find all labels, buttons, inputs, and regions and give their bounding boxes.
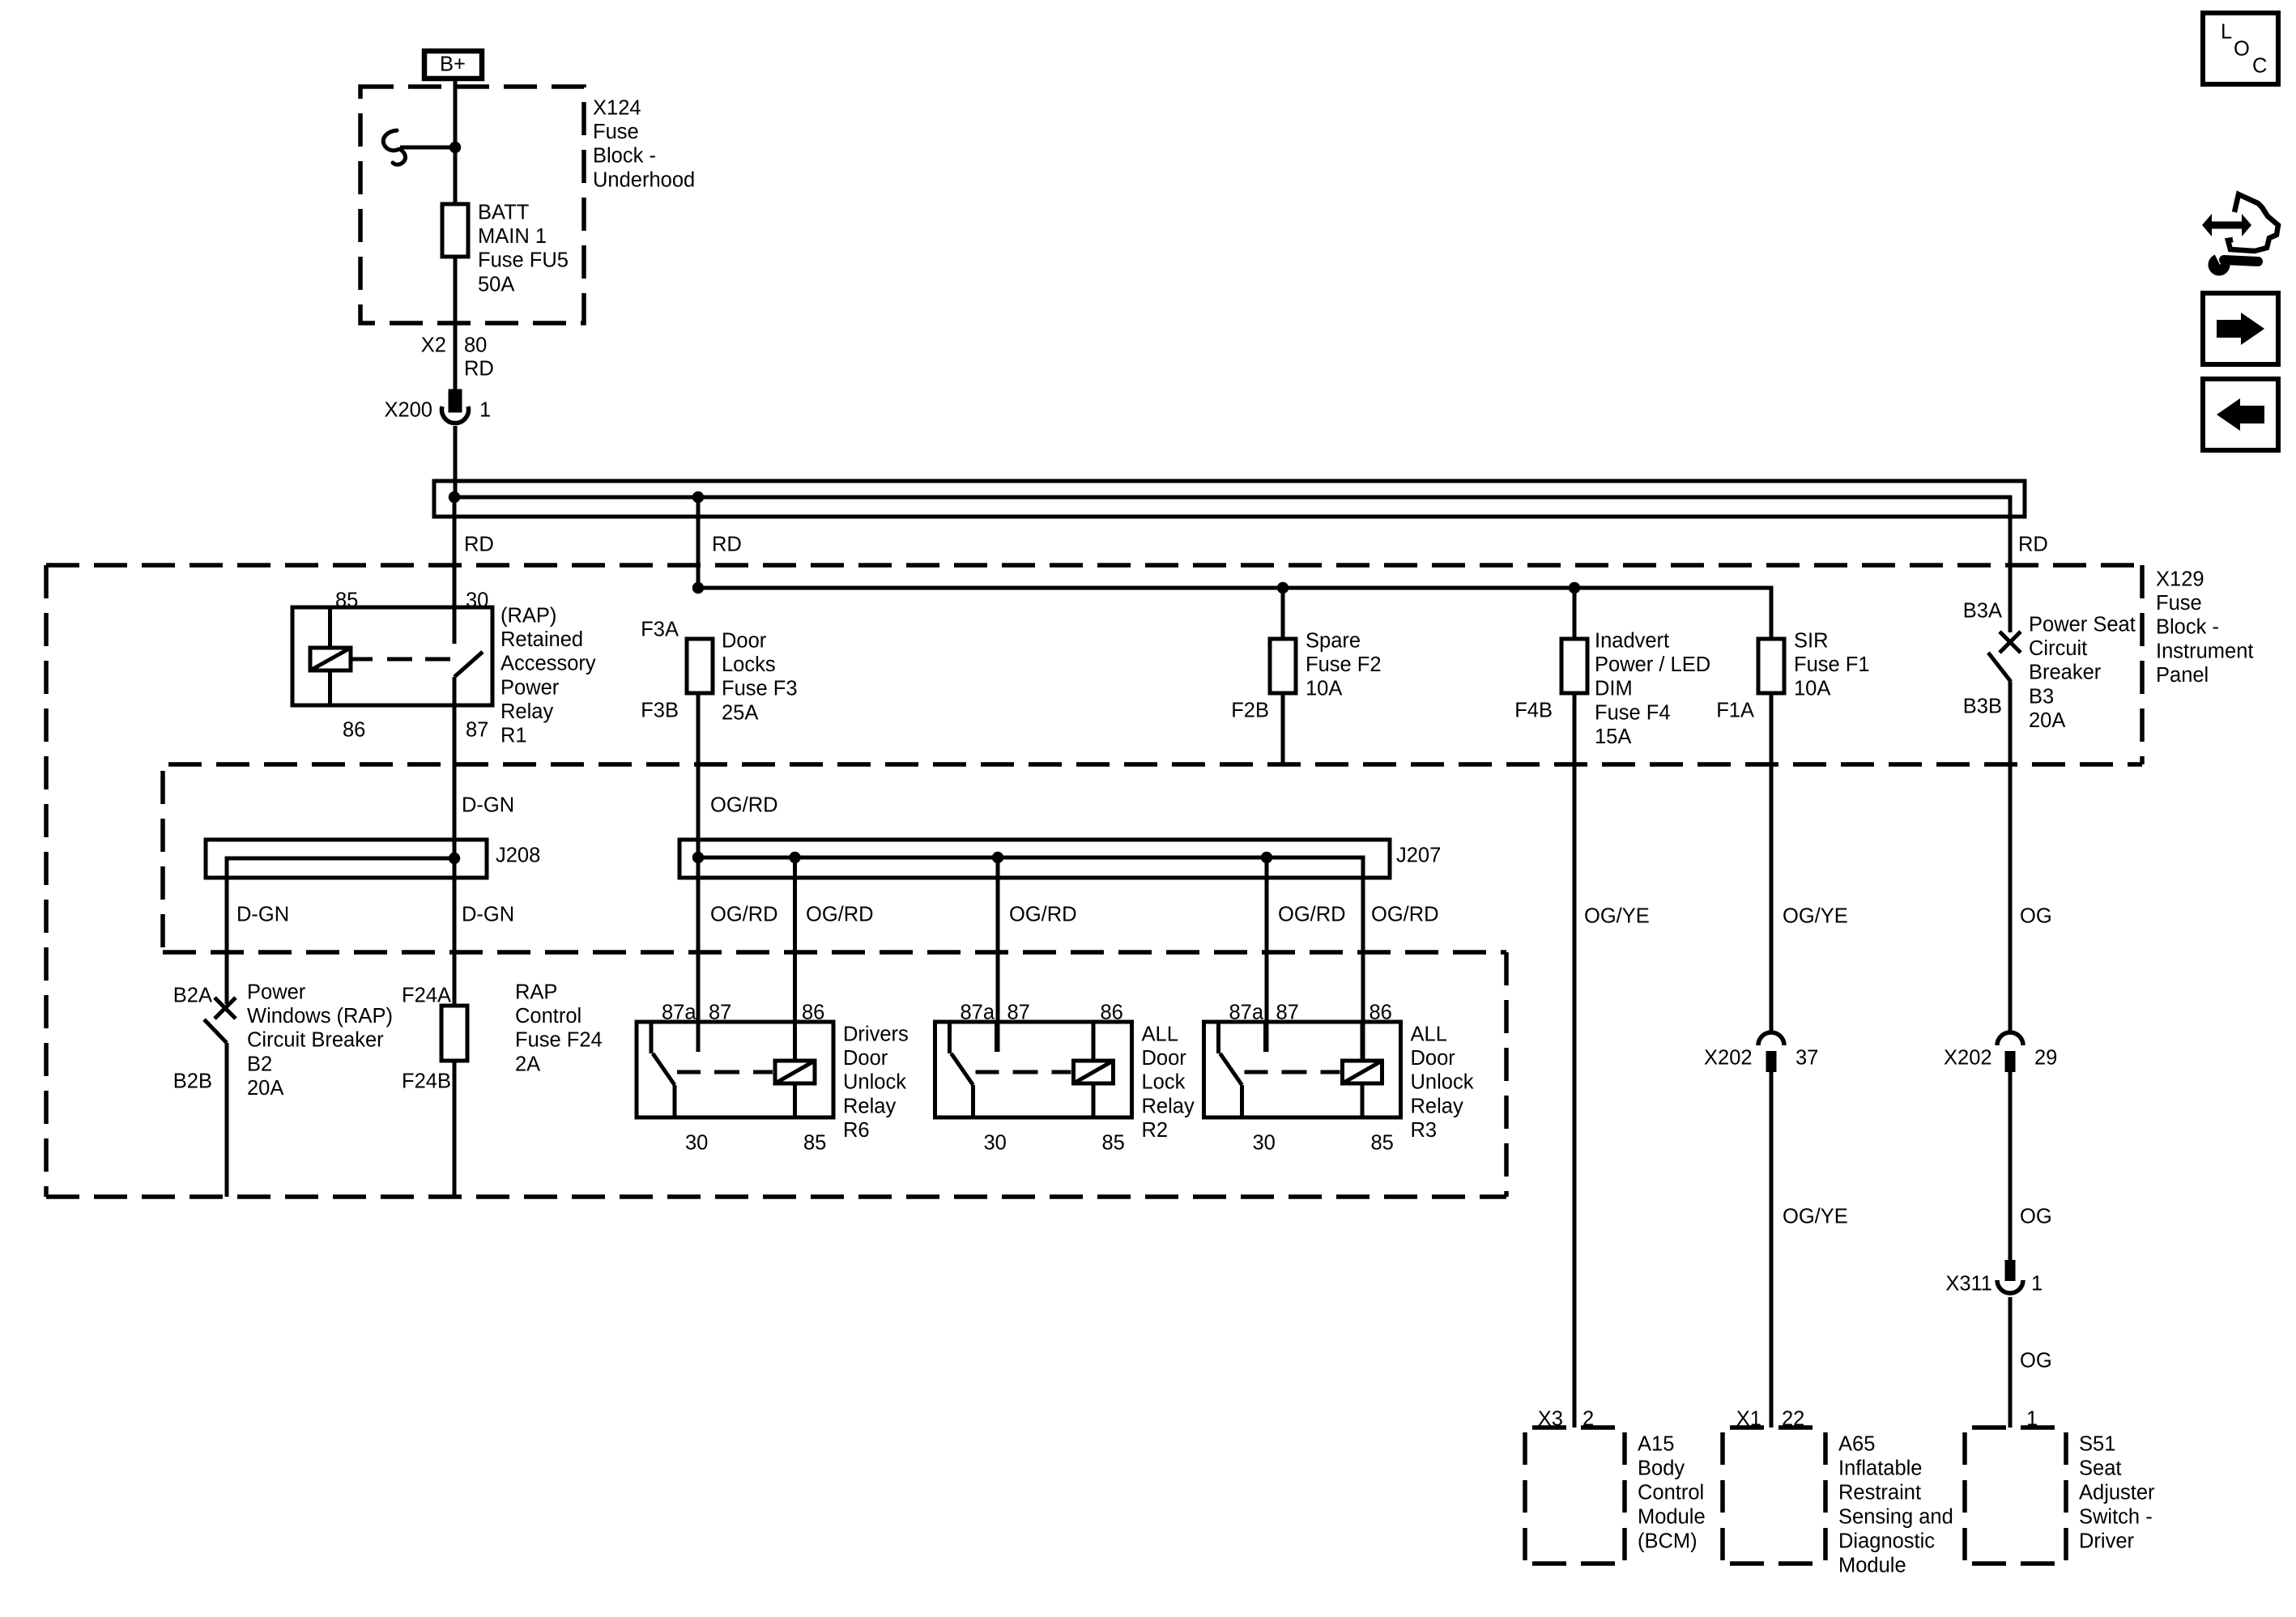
wire F1 to connector X202 — [1770, 693, 1774, 1032]
svg-text:B3B: B3B — [1963, 696, 2002, 718]
svg-text:F2B: F2B — [1231, 700, 1269, 722]
svg-text:87a: 87a — [662, 1002, 696, 1024]
svg-text:Fuse FU5: Fuse FU5 — [478, 249, 569, 272]
svg-text:A15: A15 — [1638, 1433, 1674, 1456]
svg-text:OG/YE: OG/YE — [1783, 905, 1848, 928]
svg-text:Lock: Lock — [1142, 1071, 1186, 1094]
svg-text:Adjuster: Adjuster — [2079, 1482, 2155, 1504]
svg-text:Power: Power — [247, 981, 306, 1004]
svg-text:DIM: DIM — [1595, 678, 1633, 700]
svg-text:Underhood: Underhood — [593, 168, 695, 191]
svg-text:Inflatable: Inflatable — [1838, 1457, 1923, 1480]
svg-text:R2: R2 — [1142, 1119, 1169, 1142]
svg-text:25A: 25A — [722, 701, 758, 724]
svg-text:85: 85 — [803, 1132, 826, 1155]
svg-text:OG/RD: OG/RD — [1371, 904, 1439, 926]
svg-text:1: 1 — [2031, 1273, 2043, 1296]
circuit breaker B2 Power Windows RAP 20A — [204, 998, 236, 1197]
svg-text:Door: Door — [722, 630, 767, 653]
wire J207 to R2 pin 87 — [996, 857, 1000, 1052]
wire F4B to module A15 — [1573, 693, 1577, 1428]
svg-text:Module: Module — [1638, 1506, 1706, 1529]
svg-text:Retained: Retained — [501, 628, 583, 651]
svg-text:Control: Control — [515, 1005, 581, 1028]
wire bus to relay R1 pin 30 — [453, 497, 457, 607]
svg-text:X202: X202 — [1704, 1047, 1753, 1070]
wire F2B stub — [1281, 693, 1285, 764]
connector X2 pin 80 labels — [421, 334, 488, 357]
svg-text:Control: Control — [1638, 1482, 1704, 1504]
svg-text:Module: Module — [1838, 1555, 1906, 1577]
svg-text:B2B: B2B — [173, 1070, 212, 1093]
svg-text:A65: A65 — [1838, 1433, 1875, 1456]
fuse F3 Door Locks 25A — [687, 630, 798, 725]
svg-text:1: 1 — [2026, 1408, 2038, 1431]
svg-text:15A: 15A — [1595, 726, 1631, 748]
fuse block X124 dashed outline — [360, 87, 584, 323]
module A15 Body Control Module — [1525, 1428, 1706, 1564]
wire F3 to J207 — [696, 693, 701, 857]
svg-text:S51: S51 — [2079, 1433, 2115, 1456]
wire B+ to fuse FU5 — [454, 81, 458, 204]
svg-text:MAIN 1: MAIN 1 — [478, 225, 547, 248]
svg-text:Sensing and: Sensing and — [1838, 1506, 1953, 1529]
svg-text:87: 87 — [1276, 1002, 1299, 1024]
junction J207 at F3 feed — [692, 852, 704, 863]
wire bus down to fuse F3 feed — [696, 497, 701, 588]
svg-text:Instrument: Instrument — [2156, 640, 2253, 662]
wire R1-87 through J208 to fuse F24 — [453, 705, 457, 1006]
fuse F4 Inadvert Power / LED DIM 15A — [1561, 588, 1710, 748]
wire X202-37 to module A65 — [1770, 1072, 1774, 1428]
wire X311 to switch S51 — [2008, 1297, 2013, 1428]
svg-text:OG: OG — [2020, 905, 2052, 928]
relay R2 — [935, 1022, 1132, 1117]
fuse F24 RAP Control 2A — [441, 981, 603, 1076]
relay R2 name label — [1142, 1023, 1195, 1142]
svg-text:85: 85 — [335, 589, 358, 612]
svg-text:Relay: Relay — [501, 700, 553, 723]
wire J207 to R3 pin 86 — [1361, 878, 1365, 1061]
circuit breaker B3 name label — [2029, 614, 2136, 732]
svg-text:22: 22 — [1782, 1408, 1804, 1431]
svg-text:87a: 87a — [961, 1002, 995, 1024]
relay R6 — [637, 1022, 833, 1117]
bus inner wire RD — [454, 497, 2010, 517]
svg-text:F4B: F4B — [1514, 700, 1553, 722]
svg-text:Driver: Driver — [2079, 1530, 2135, 1553]
svg-text:D-GN: D-GN — [462, 794, 514, 817]
lower dashed compartment outline — [46, 771, 1506, 1197]
svg-text:OG/YE: OG/YE — [1783, 1206, 1848, 1228]
switch S51 Seat Adjuster Switch Driver — [1965, 1428, 2155, 1564]
fuse FU5 BATT MAIN 1 50A — [442, 202, 569, 296]
icon vehicle with arrow and wrench — [2202, 194, 2278, 276]
icon LOC reference box — [2203, 13, 2278, 84]
svg-text:Accessory: Accessory — [501, 653, 596, 675]
relay R3 — [1204, 1022, 1401, 1117]
svg-text:F1A: F1A — [1716, 700, 1754, 722]
junction J207 at R6-86 — [789, 852, 800, 863]
bus bar rectangle — [434, 481, 2025, 517]
svg-text:X202: X202 — [1944, 1047, 1992, 1070]
relay R1 (RAP) Retained Accessory Power Relay — [292, 607, 492, 705]
svg-text:Fuse F24: Fuse F24 — [515, 1029, 603, 1052]
fuse block X129 dashed outline — [46, 565, 2142, 1197]
svg-text:20A: 20A — [2029, 709, 2065, 732]
svg-text:Windows (RAP): Windows (RAP) — [247, 1005, 393, 1028]
svg-text:OG: OG — [2020, 1206, 2052, 1228]
circuit breaker B2 name label — [247, 981, 393, 1100]
svg-text:X129: X129 — [2156, 568, 2204, 591]
svg-text:X124: X124 — [593, 97, 641, 120]
fuse block X124 label — [593, 97, 695, 192]
svg-text:Door: Door — [1411, 1047, 1456, 1070]
relay R6 name label — [843, 1023, 909, 1142]
svg-text:50A: 50A — [478, 273, 514, 296]
relay R1 name label — [501, 605, 596, 747]
svg-text:Fuse F4: Fuse F4 — [1595, 701, 1671, 724]
svg-text:Restraint: Restraint — [1838, 1482, 1921, 1504]
svg-text:Power / LED: Power / LED — [1595, 653, 1710, 676]
svg-text:Circuit Breaker: Circuit Breaker — [247, 1029, 384, 1052]
wire X202-29 to connector X311 — [2008, 1072, 2013, 1263]
svg-text:OG: OG — [2020, 1350, 2052, 1372]
svg-text:Block -: Block - — [593, 145, 656, 168]
svg-text:Relay: Relay — [1142, 1095, 1195, 1117]
svg-text:Fuse F1: Fuse F1 — [1794, 653, 1870, 676]
svg-text:2A: 2A — [515, 1053, 540, 1075]
connector X202 pin 29 — [1944, 1032, 2057, 1072]
connector X1 pin 22 labels — [1736, 1408, 1805, 1431]
svg-text:Diagnostic: Diagnostic — [1838, 1530, 1935, 1553]
junction bus at x561 — [449, 491, 460, 503]
svg-text:F3B: F3B — [641, 700, 679, 722]
svg-text:X311: X311 — [1945, 1273, 1992, 1296]
svg-text:RD: RD — [2018, 534, 2048, 556]
svg-text:SIR: SIR — [1794, 630, 1829, 653]
wire bus to circuit breaker B3 — [2008, 517, 2013, 632]
svg-text:37: 37 — [1795, 1047, 1818, 1070]
svg-text:30: 30 — [984, 1132, 1007, 1155]
splice pack J208 — [206, 840, 487, 878]
svg-text:OG/RD: OG/RD — [1278, 904, 1346, 926]
svg-text:RD: RD — [464, 358, 494, 381]
svg-text:ALL: ALL — [1411, 1023, 1447, 1046]
svg-text:B3: B3 — [2029, 685, 2054, 708]
svg-text:87: 87 — [466, 719, 488, 742]
svg-text:X1: X1 — [1736, 1408, 1761, 1431]
wire J208 to circuit breaker B2 — [225, 878, 229, 1004]
svg-text:29: 29 — [2034, 1047, 2057, 1070]
svg-text:Locks: Locks — [722, 653, 776, 676]
splice pack J207 — [679, 840, 1390, 878]
svg-text:Inadvert: Inadvert — [1595, 630, 1669, 653]
wire F24B stub — [453, 1061, 457, 1197]
svg-text:(BCM): (BCM) — [1638, 1530, 1698, 1553]
svg-text:20A: 20A — [247, 1077, 283, 1100]
relay R3 name label — [1411, 1023, 1474, 1142]
svg-text:Unlock: Unlock — [1411, 1071, 1474, 1094]
wire B3B to connector X202 — [2008, 682, 2013, 1032]
svg-text:85: 85 — [1371, 1132, 1394, 1155]
svg-text:86: 86 — [343, 719, 365, 742]
icon arrow left box — [2203, 379, 2278, 450]
junction X129 bus at F2 — [1277, 582, 1289, 594]
svg-text:87: 87 — [709, 1002, 731, 1024]
svg-text:86: 86 — [802, 1002, 824, 1024]
svg-text:10A: 10A — [1794, 678, 1830, 700]
module A65 Inflatable Restraint Sensing and Diagnostic Module — [1723, 1428, 1953, 1577]
svg-text:10A: 10A — [1306, 678, 1342, 700]
fusible link symbol — [383, 130, 455, 164]
svg-text:30: 30 — [466, 589, 488, 612]
svg-text:85: 85 — [1102, 1132, 1125, 1155]
svg-text:Circuit: Circuit — [2029, 637, 2087, 660]
svg-text:F24B: F24B — [402, 1070, 451, 1093]
svg-text:OG/YE: OG/YE — [1584, 905, 1650, 928]
svg-text:R1: R1 — [501, 725, 527, 747]
wire FU5 to X200 — [454, 257, 458, 391]
svg-text:Panel: Panel — [2156, 664, 2209, 687]
svg-text:X2: X2 — [421, 334, 446, 357]
svg-text:Switch -: Switch - — [2079, 1506, 2153, 1529]
svg-text:F3A: F3A — [641, 619, 679, 641]
svg-text:Fuse F3: Fuse F3 — [722, 678, 798, 700]
junction X129 bus at F4 — [1569, 582, 1580, 594]
svg-text:B2: B2 — [247, 1053, 272, 1075]
wire J207 to R3 pin 87 — [1265, 857, 1269, 1052]
svg-text:Relay: Relay — [843, 1095, 896, 1117]
junction J207 at R3-87 — [1261, 852, 1272, 863]
junction on B+ wire — [449, 142, 461, 153]
svg-text:OG/RD: OG/RD — [1009, 904, 1077, 926]
svg-text:J208: J208 — [496, 845, 540, 867]
svg-text:X200: X200 — [384, 399, 432, 422]
svg-text:Power: Power — [501, 676, 560, 699]
junction J208 — [449, 853, 460, 864]
connector X202 pin 37 — [1704, 1032, 1818, 1072]
svg-text:R3: R3 — [1411, 1119, 1438, 1142]
svg-text:L: L — [2221, 21, 2232, 44]
junction X129 bus at F3 — [692, 582, 704, 594]
svg-text:R6: R6 — [843, 1119, 870, 1142]
svg-text:(RAP): (RAP) — [501, 605, 556, 628]
svg-text:B+: B+ — [440, 53, 466, 76]
circuit breaker B3 Power Seat 20A — [1988, 632, 2021, 682]
X129 inner bus wire — [698, 588, 1771, 639]
svg-text:O: O — [2234, 38, 2250, 61]
svg-text:30: 30 — [1253, 1132, 1276, 1155]
svg-text:X3: X3 — [1538, 1408, 1563, 1431]
fuse block X129 label — [2156, 568, 2253, 687]
svg-text:30: 30 — [685, 1132, 708, 1155]
svg-text:Fuse: Fuse — [593, 121, 639, 143]
svg-text:C: C — [2252, 55, 2267, 78]
svg-text:D-GN: D-GN — [462, 904, 514, 926]
connector X3 pin 2 labels — [1538, 1408, 1594, 1431]
svg-text:D-GN: D-GN — [236, 904, 289, 926]
svg-text:86: 86 — [1101, 1002, 1123, 1024]
icon arrow right box — [2203, 293, 2278, 364]
svg-text:Spare: Spare — [1306, 630, 1361, 653]
svg-text:87a: 87a — [1229, 1002, 1264, 1024]
svg-text:Fuse: Fuse — [2156, 592, 2202, 615]
svg-text:Block -: Block - — [2156, 616, 2219, 639]
svg-text:B3A: B3A — [1963, 600, 2002, 623]
wire J207 to R6 pin 86 — [793, 857, 797, 1061]
svg-text:RD: RD — [464, 534, 494, 556]
svg-text:Fuse F2: Fuse F2 — [1306, 653, 1382, 676]
junction J207 at R2-87 — [992, 852, 1003, 863]
battery positive terminal B+ — [424, 51, 482, 79]
wire J207 to R6 pin 87 — [696, 857, 701, 1052]
svg-text:Door: Door — [843, 1047, 888, 1070]
svg-text:87: 87 — [1007, 1002, 1030, 1024]
fuse F1 SIR 10A — [1758, 630, 1870, 700]
svg-text:Relay: Relay — [1411, 1095, 1463, 1117]
svg-text:Unlock: Unlock — [843, 1071, 906, 1094]
svg-text:J207: J207 — [1396, 845, 1441, 867]
svg-text:Power Seat: Power Seat — [2029, 614, 2136, 636]
svg-text:1: 1 — [479, 399, 491, 422]
svg-text:RD: RD — [712, 534, 742, 556]
svg-text:ALL: ALL — [1142, 1023, 1178, 1046]
svg-text:OG/RD: OG/RD — [710, 794, 778, 817]
svg-text:86: 86 — [1370, 1002, 1392, 1024]
junction bus at x862 — [692, 491, 704, 503]
svg-text:BATT: BATT — [478, 202, 529, 224]
svg-text:OG/RD: OG/RD — [710, 904, 778, 926]
connector X311 pin 1 — [1945, 1260, 2043, 1296]
svg-text:Seat: Seat — [2079, 1457, 2121, 1480]
wire X200 to bus — [454, 426, 458, 497]
connector X200 pin 1 — [384, 391, 491, 423]
svg-text:Breaker: Breaker — [2029, 662, 2102, 684]
svg-text:B2A: B2A — [173, 985, 212, 1007]
fuse F2 Spare 10A — [1270, 588, 1382, 700]
svg-text:OG/RD: OG/RD — [806, 904, 874, 926]
svg-text:80: 80 — [464, 334, 487, 357]
svg-text:Body: Body — [1638, 1457, 1685, 1480]
svg-text:Drivers: Drivers — [843, 1023, 909, 1046]
svg-text:RAP: RAP — [515, 981, 557, 1004]
svg-text:Door: Door — [1142, 1047, 1187, 1070]
svg-text:2: 2 — [1582, 1408, 1594, 1431]
svg-text:F24A: F24A — [402, 985, 451, 1007]
